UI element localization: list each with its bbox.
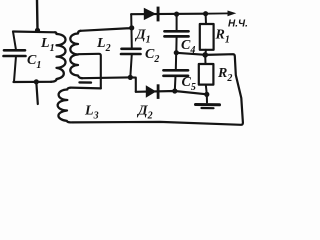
capacitor C1 (4, 49, 25, 52)
ground (196, 103, 220, 106)
capacitor C5 (164, 69, 189, 72)
capacitor C2 (122, 47, 141, 50)
wire C2 lower stem (130, 54, 132, 77)
output arrowhead (228, 11, 237, 17)
node antenna/tank top (35, 28, 40, 33)
resistor R1 (200, 24, 214, 50)
wire R1 bottom lead (204, 50, 207, 55)
wire L2 center tap (79, 54, 101, 89)
inductor L2 (70, 31, 82, 78)
wire jog to D2 (130, 77, 136, 91)
wire tank left / C1 stems (13, 32, 16, 51)
wire D2 output line (136, 91, 207, 94)
svg-text:Н.Ч.: Н.Ч. (228, 19, 248, 30)
node C4/C5 junction (174, 50, 179, 55)
wire tank top (13, 30, 55, 33)
wire L2 bottom artifact dash (80, 81, 92, 84)
wire C4C5 junction to R junction (176, 53, 205, 55)
wire C5 lower stem (174, 76, 177, 91)
wire C5 upper stem (175, 53, 177, 70)
node R1/R2 junction (202, 52, 208, 58)
wire output arrow line (206, 12, 229, 14)
wire right rail (72, 54, 243, 125)
diode D1 (144, 8, 157, 20)
node tank bottom (34, 79, 39, 84)
wire ground stub (206, 94, 208, 102)
node C2 bottom / L2 bottom (128, 75, 133, 80)
wire R1 top lead (205, 14, 207, 24)
diode D2 (146, 85, 156, 97)
wire R2 top lead (204, 55, 206, 64)
wire C4 lower stem (175, 36, 177, 52)
wire C4 upper stem (176, 14, 178, 30)
wire R2 bottom lead (206, 85, 207, 95)
wire L3 top (71, 86, 101, 89)
node top rail / R1 (203, 11, 208, 16)
wire L2 bottom to C2 junction (82, 76, 130, 79)
capacitor C4 (165, 30, 189, 33)
resistor R2 (199, 64, 214, 85)
node top rail / C4 (174, 12, 179, 17)
wire L2 top to junction (81, 28, 132, 31)
wire ground stub left (36, 82, 38, 104)
wire C2 upper stem / corner to top rail (130, 14, 133, 48)
node C5 bottom (172, 88, 177, 93)
inductor L3 (58, 88, 71, 123)
wire tank bottom (14, 81, 52, 83)
wire top rail (131, 13, 205, 16)
node L2 top / C2 / D1 (129, 25, 134, 30)
inductor L1 (51, 32, 66, 82)
wire antenna lead (36, 0, 39, 30)
node R2 bottom / ground (204, 92, 209, 97)
